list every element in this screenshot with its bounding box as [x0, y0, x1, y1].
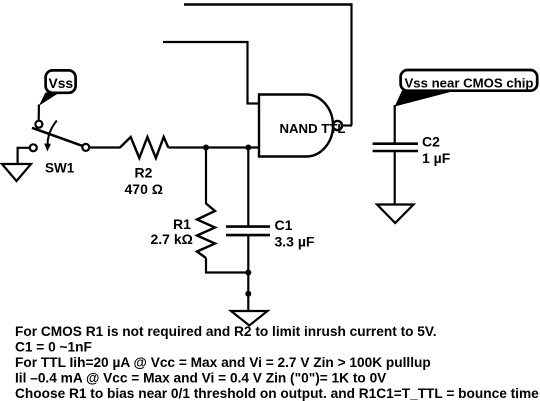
capacitor C1 — [226, 148, 270, 312]
svg-text:470 Ω: 470 Ω — [125, 181, 163, 197]
note text line 3 — [15, 355, 431, 370]
label R1 value 2.7k — [151, 216, 193, 247]
svg-text:2.7 kΩ: 2.7 kΩ — [151, 231, 193, 247]
note text line 4 — [15, 371, 387, 386]
label C2 value 1uF — [422, 134, 451, 166]
wire node to R1 — [205, 148, 207, 205]
svg-text:For TTL Iih=20 µA @ Vcc = Max: For TTL Iih=20 µA @ Vcc = Max and Vi = 2… — [15, 355, 431, 370]
svg-text:C1 = 0 ~1nF: C1 = 0 ~1nF — [15, 340, 92, 355]
svg-text:Iil –0.4 mA @ Vcc = Max and Vi: Iil –0.4 mA @ Vcc = Max and Vi = 0.4 V Z… — [15, 371, 387, 386]
svg-text:R1: R1 — [173, 216, 191, 232]
ground (C1 branch) — [231, 311, 268, 326]
svg-text:NAND TTL: NAND TTL — [280, 121, 346, 136]
wire feedback top horizontal — [184, 3, 352, 5]
callout label Vss near CMOS chip — [395, 70, 538, 107]
note text line 2 — [15, 340, 92, 355]
wire feedback vertical — [350, 3, 352, 125]
switch SW1 — [30, 121, 90, 152]
wire R2 to gate lower input — [168, 146, 260, 148]
wire top input jog into gate — [246, 102, 260, 104]
svg-text:For CMOS R1 is not required an: For CMOS R1 is not required and R2 to li… — [15, 324, 437, 339]
svg-text:Choose R1 to bias near 0/1 thr: Choose R1 to bias near 0/1 threshold on … — [15, 386, 539, 401]
node junction at R1 — [203, 145, 209, 151]
svg-text:R2: R2 — [135, 165, 153, 181]
wire R1 bottom to C1 bottom — [206, 258, 249, 273]
wire top input horizontal — [163, 41, 248, 43]
NAND gate U1 (NAND TTL) — [259, 95, 345, 157]
ground (switch) — [2, 164, 31, 181]
wire top input vertical — [246, 41, 248, 104]
note text line 1 — [15, 324, 437, 339]
callout label Vss — [39, 70, 76, 105]
node junction R1/C1 bottom — [245, 270, 251, 276]
wire callout to C2 — [394, 105, 396, 144]
wire switch to R2 — [89, 146, 120, 148]
svg-text:SW1: SW1 — [45, 161, 75, 176]
svg-text:Vss near CMOS chip: Vss near CMOS chip — [405, 75, 534, 90]
note text line 5 — [15, 386, 539, 401]
wire left contact to ground — [18, 148, 30, 164]
resistor R2 — [120, 137, 168, 158]
svg-text:1 µF: 1 µF — [422, 150, 451, 166]
svg-text:Vss: Vss — [49, 76, 74, 91]
label C1 value 3.3uF — [275, 217, 315, 249]
node junction above ground — [245, 291, 251, 297]
ground (C2) — [377, 205, 414, 224]
label R2 value 470 ohm — [125, 165, 163, 198]
resistor R1 — [197, 204, 215, 259]
wire Vss to switch pivot — [38, 105, 40, 122]
wire output stub — [342, 124, 353, 126]
node junction at C1 — [245, 145, 251, 151]
label SW1 — [45, 161, 75, 176]
svg-text:C2: C2 — [422, 134, 440, 150]
svg-text:3.3 µF: 3.3 µF — [275, 234, 315, 250]
svg-text:C1: C1 — [275, 217, 293, 233]
capacitor C2 — [373, 144, 418, 205]
